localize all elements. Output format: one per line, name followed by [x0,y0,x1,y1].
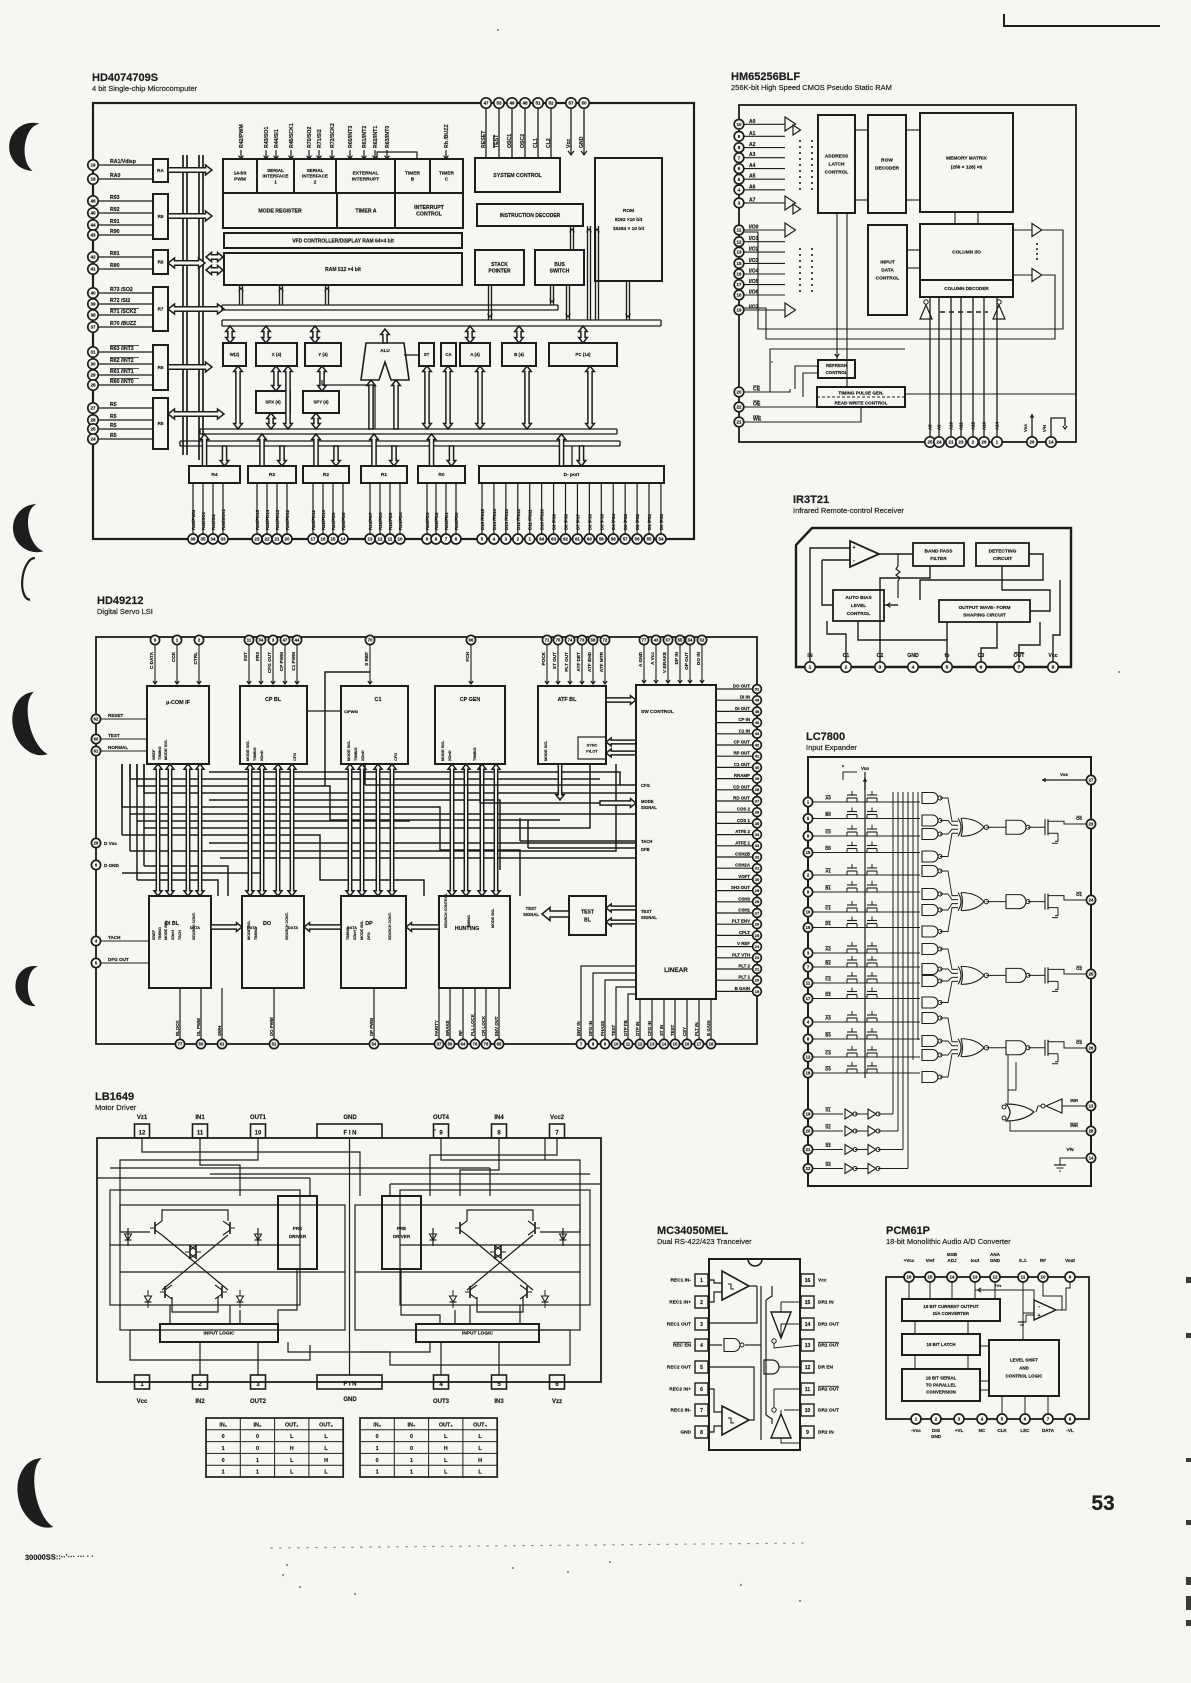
svg-text:43: 43 [90,233,96,238]
svg-text:B1: B1 [825,886,831,891]
pin 57 Vcc [566,98,576,155]
pcm wire ls down [1002,1396,1048,1414]
svg-text:SREF: SREF [152,929,156,940]
svg-text:51: 51 [535,101,541,106]
wire X-SPX [272,366,281,391]
pin 27 Vss [1042,772,1096,785]
inverter pair S1 [845,1109,893,1119]
svg-text:DFG IN: DFG IN [588,1021,593,1036]
svg-text:R4: R4 [211,472,217,478]
svg-text:5: 5 [700,1365,703,1371]
svg-text:11: 11 [737,228,742,233]
pin 11 C2 [803,977,920,988]
svg-text:REC2 OUT: REC2 OUT [667,1365,691,1371]
svg-text:C1 PWM: C1 PWM [291,652,296,671]
svg-text:OUT1: OUT1 [250,1115,267,1121]
svg-text:3: 3 [879,665,882,671]
svg-text:13: 13 [973,1275,978,1280]
svg-text:R8: R8 [158,260,164,265]
svg-text:19: 19 [90,163,96,168]
svg-text:CR LOCK: CR LOCK [481,1015,486,1036]
pin 39 R72 /SI2 [88,298,153,309]
pin 63 D9 /FS9 [549,483,559,544]
receiver 2 amp [708,1367,754,1435]
svg-text:2: 2 [700,1300,703,1306]
block TEST BL [569,896,606,935]
svg-text:12: 12 [993,1275,998,1280]
svg-text:INPUT LOGIC: INPUT LOGIC [204,1331,235,1337]
svg-text:DFB: DFB [641,847,650,852]
svg-text:DR2 IN: DR2 IN [818,1430,834,1436]
pin 3 A7 [734,197,785,207]
wires L half [97,1138,490,1330]
pin 2 A12 [968,297,978,447]
svg-text:19: 19 [755,989,760,994]
svg-text:TIMING: TIMING [353,747,358,761]
pin 29 D Vss [91,838,117,847]
svg-text:18 BIT CURRENT OUTPUT: 18 BIT CURRENT OUTPUT [923,1304,978,1309]
truth table L [206,1418,343,1477]
svg-text:FST: FST [243,652,248,661]
pin 24 O1 [1076,892,1096,905]
bus drop c1 362 [358,764,366,896]
wire CA down [444,366,453,429]
title LB1649 [95,1091,137,1112]
svg-text:+Vs: +Vs [995,1284,1002,1288]
svg-text:DR1 OUT: DR1 OUT [818,1343,839,1349]
bus drop c1 378 [374,764,382,896]
pin 18 RA0 [88,173,153,184]
svg-text:DR1 OUT: DR1 OUT [818,1322,839,1328]
svg-text:61: 61 [220,1042,225,1047]
svg-text:DR EN: DR EN [818,1365,833,1371]
pin 14 MSB [947,1252,958,1282]
nand gate g3k0 [922,1013,942,1024]
block CP BL [240,686,307,764]
svg-text:4: 4 [912,665,915,671]
svg-text:11: 11 [805,1387,811,1393]
scan smudge dotted line [270,1543,810,1548]
svg-text:13: 13 [805,1343,811,1349]
inverter pair S3 [845,1145,903,1155]
svg-text:PARITY: PARITY [434,1020,439,1036]
svg-text:R42/PWM: R42/PWM [239,124,245,148]
pin 12 DTP IN [635,999,645,1049]
svg-text:17: 17 [697,1042,702,1047]
svg-text:R13/FD7: R13/FD7 [368,512,373,530]
pin 5 CLK [997,1414,1007,1433]
svg-text:21: 21 [755,966,760,971]
svg-text:STACK: STACK [491,262,508,268]
svg-text:ENV IN: ENV IN [576,1021,581,1036]
pin 15 I/O3 [734,258,785,268]
pass transistor row 2 [847,825,877,836]
wire or top feed [1007,1055,1009,1103]
block auto bias level control [833,590,884,621]
svg-text:19: 19 [737,308,742,313]
pin 56 D2 /FS2 [632,483,642,544]
svg-text:XDnH: XDnH [447,750,452,761]
svg-text:OUT₄: OUT₄ [473,1422,487,1428]
pin 8 R02/FD2 [431,483,441,544]
pin 50 DL PWM [196,988,206,1049]
test signal arrow right [606,904,636,926]
svg-text:NORMAL: NORMAL [108,745,128,750]
bus drop cpgen 496 [492,764,500,896]
pin 8 IN4 [492,1115,507,1138]
svg-text:CP BL: CP BL [265,697,282,703]
pin 19 B GAIN [716,986,761,996]
svg-text:1: 1 [274,179,277,184]
pin 11 S.J. [1018,1258,1028,1282]
block band pass filter [913,543,964,566]
pin 45 R92 [88,207,153,218]
wire fin mid [350,1138,546,1375]
register R4 [189,466,240,483]
svg-text:24: 24 [755,944,760,949]
pin 23 R33/FD15 [252,483,262,544]
svg-text:D- port: D- port [564,472,580,478]
pin 21 R31/FD13 [272,483,282,544]
wire idc-colio [907,250,920,268]
nand gate g2k1 [922,964,942,975]
block SW CONTROL / LINEAR [636,685,716,999]
svg-text:54: 54 [372,1042,377,1047]
svg-text:MODE SIG.: MODE SIG. [245,740,250,761]
svg-text:39: 39 [90,302,96,307]
pin 53 TEST [493,98,504,158]
svg-text:0: 0 [256,1434,259,1440]
block input logic R [416,1324,539,1342]
scan blob 2 [10,505,43,555]
svg-text:L: L [478,1446,482,1452]
pin 76 PLL LOCK [470,988,480,1049]
svg-text:Vcc2: Vcc2 [550,1115,565,1121]
svg-text:58: 58 [591,638,596,643]
wire SPX down [267,413,276,429]
pass transistor row 6 [847,901,877,912]
pass transistor row 7 [847,916,877,927]
pin 28 R60 /INT0 [88,378,153,390]
svg-text:3: 3 [700,1322,703,1328]
svg-text:16384 × 10 bit: 16384 × 10 bit [613,226,645,232]
svg-text:ENV OUT: ENV OUT [494,1016,499,1036]
svg-text:FILTER: FILTER [930,556,947,562]
pin 18 B GAIN [706,999,716,1049]
pin 11 I/O0 [734,225,785,235]
pin 57 V BRAKE [662,635,673,683]
svg-text:23: 23 [1089,822,1094,827]
signal mesh [122,764,636,896]
pin 8 DFG IN [588,1010,598,1049]
svg-text:8192 ×10 bit: 8192 ×10 bit [615,217,643,223]
svg-text:PILOT: PILOT [586,748,598,753]
svg-text:Vss: Vss [1023,424,1028,432]
svg-text:R12/FD6: R12/FD6 [378,512,383,530]
xnor gate 3 [958,1039,989,1057]
svg-text:S REF: S REF [364,652,369,666]
io input buffer 7 [785,303,796,317]
block row decoder [868,115,906,213]
faint specks [282,29,1120,1602]
pin 72 ATF MTR [599,635,610,684]
wire R4 down [220,446,229,466]
svg-text:5: 5 [946,665,949,671]
svg-text:L: L [444,1434,448,1440]
svg-text:R61 /INT1: R61 /INT1 [110,369,134,375]
svg-text:1: 1 [256,1470,259,1476]
svg-text:CONTROL: CONTROL [826,370,848,375]
svg-text:DR2 OUT: DR2 OUT [818,1387,839,1393]
pin 15 R21/FD9 [328,483,338,544]
pass transistor row 4 [847,864,877,875]
pin 71 POCK [541,635,552,684]
title HM65256BLF [731,71,892,92]
svg-text:2: 2 [314,179,317,184]
svg-text:13: 13 [737,250,742,255]
bus drop ucom 188 [184,764,192,896]
svg-text:10: 10 [737,122,742,127]
svg-text:READ WRITE CONTROL: READ WRITE CONTROL [834,401,887,406]
pin 27 R5 [88,402,153,413]
svg-text:10: 10 [614,1042,619,1047]
svg-text:TIMING: TIMING [467,915,471,928]
svg-text:S4: S4 [825,1162,831,1167]
bus arrow R6 [168,362,212,372]
pcm wire vout [1056,1282,1070,1310]
svg-text:Vout: Vout [1065,1258,1075,1263]
svg-text:27: 27 [1089,778,1094,783]
svg-text:A8: A8 [928,424,933,430]
wire B down [523,366,532,429]
pin 40 C1 OUT [716,762,761,772]
svg-text:PRE: PRE [293,1226,302,1231]
svg-text:OSC2: OSC2 [520,134,526,148]
svg-text:BAND PASS: BAND PASS [925,548,954,554]
svg-text:D3 /FS3: D3 /FS3 [623,513,628,530]
svg-text:SIGNAL: SIGNAL [523,912,539,917]
svg-text:12: 12 [638,1042,643,1047]
pin 3 OUT2 [250,1375,267,1405]
bus drop cpbl 292 [288,764,296,896]
pin 29 SH3 OUT [716,885,761,895]
wire B up [515,326,524,343]
block DA converter [902,1299,1000,1321]
svg-text:GND: GND [931,1434,942,1439]
wire bus switch down b [566,285,571,320]
pin 2 IN2 [193,1375,208,1405]
inverter pair S2 [845,1126,898,1136]
pin 16 Vcc [801,1274,827,1286]
svg-text:R0: R0 [438,472,444,478]
svg-text:REC1 IN+: REC1 IN+ [669,1300,691,1306]
svg-text:60: 60 [587,537,592,542]
svg-text:CIRCUIT: CIRCUIT [993,556,1013,562]
svg-text:DO: DO [263,921,271,927]
pin 5 REC2 OUT [667,1361,708,1373]
svg-text:+Vcc: +Vcc [904,1258,915,1263]
linear fanout wires [581,966,636,1010]
pin 70 S REF [364,635,375,684]
svg-text:CP GEN: CP GEN [460,697,481,703]
wire out 2 [986,969,1086,975]
svg-text:(256 × 128) ×8: (256 × 128) ×8 [951,165,983,171]
svg-text:11: 11 [1021,1275,1026,1280]
pin 30 VOFT [716,874,761,884]
svg-text:LATCH: LATCH [829,162,845,168]
svg-text:INSTRUCTION DECODER: INSTRUCTION DECODER [500,213,561,219]
svg-text:CONTROL: CONTROL [847,611,871,617]
pin 14 ST IN [659,999,669,1049]
svg-text:D10 /FS10: D10 /FS10 [540,508,545,530]
wire sw-sync [606,738,636,757]
svg-text:INTERFACE: INTERFACE [302,174,328,179]
wire data di-do [211,923,242,932]
nand gate g0k2 [922,829,942,840]
svg-text:ATF DET: ATF DET [576,652,581,672]
svg-text:R30/FD12: R30/FD12 [285,509,290,530]
block serial to parallel [902,1369,980,1401]
svg-text:A3: A3 [825,1016,831,1021]
pin 34 ATFE 2 [716,829,761,839]
block column decoder [920,280,1013,297]
svg-text:MSB: MSB [947,1252,958,1257]
pin 26 O3 [1076,1040,1096,1053]
svg-text:C0: C0 [825,830,831,835]
pin 7 R01/FD1 [441,483,451,544]
svg-text:DFG: DFG [367,932,371,940]
svg-text:78: 78 [484,1042,489,1047]
wire row-matrix [906,130,920,200]
svg-text:B3: B3 [825,1033,831,1038]
title IR3T21 [793,494,904,515]
pin 31 R63 /INT3 [88,345,153,357]
svg-text:X (4): X (4) [272,352,282,357]
bus drop ucom 170 [166,764,174,896]
svg-text:HM65256BLF: HM65256BLF [731,71,800,83]
pin 61 NORMAL [91,745,147,756]
svg-text:37: 37 [755,798,760,803]
pin 23 O0 [1076,816,1096,829]
svg-text:PLT OUT: PLT OUT [564,652,569,672]
wire W down [234,366,243,429]
IC boundary HD49212 [96,637,757,1044]
svg-text:28: 28 [1089,1129,1094,1134]
svg-text:17: 17 [311,537,316,542]
svg-text:CP IN: CP IN [738,717,750,722]
svg-text:GND: GND [343,1115,357,1121]
pin 14 VIH [1042,418,1067,447]
block DI BL [149,896,211,988]
pin 38 CD OUT [716,784,761,794]
svg-text:26: 26 [1089,1046,1094,1051]
svg-text:DL PWM: DL PWM [196,1018,201,1036]
signal R70/SO2 [307,127,313,159]
svg-text:ANA: ANA [990,1252,1001,1257]
pass transistor row 12 [847,1011,877,1022]
svg-text:R81: R81 [110,251,120,257]
svg-text:COS 2: COS 2 [737,807,751,812]
svg-text:L: L [290,1434,294,1440]
svg-text:57: 57 [568,101,574,106]
svg-text:33: 33 [755,843,760,848]
pin 19 S1 [803,1108,843,1119]
address input buffer A7 [785,196,801,214]
svg-text:CD OUT: CD OUT [733,784,750,789]
svg-text:IN2: IN2 [195,1399,205,1405]
register SPY [303,391,339,413]
pcm wire ls up [1022,1290,1024,1340]
svg-text:28: 28 [755,899,760,904]
pin 23 PLT VTH [716,952,761,962]
pin 21 PLT 2 [716,964,761,974]
pin 2 DIG [931,1414,942,1439]
svg-text:6: 6 [700,1387,703,1393]
pin 5 IN3 [492,1375,507,1405]
svg-text:3: 3 [256,1382,260,1388]
svg-text:23: 23 [959,440,964,445]
wire Y up [311,326,320,343]
svg-text:R71/SI2: R71/SI2 [317,129,323,148]
svg-text:1: 1 [410,1470,413,1476]
svg-text:24: 24 [937,440,942,445]
pin 38 R71 /SCK2 [88,308,153,320]
svg-text:DATA: DATA [190,925,200,930]
select lines vertical [893,792,918,1169]
pin 48 OSC2 [520,98,530,158]
nand gate g3k3 [922,1072,942,1083]
output fet 1 [1039,894,1058,918]
svg-text:COS 1: COS 1 [737,818,751,823]
pin 75 ST OUT [552,635,563,684]
wire ALU in R [392,380,401,429]
svg-text:15: 15 [928,1275,933,1280]
svg-text:51: 51 [755,686,760,691]
svg-text:INTERFACE: INTERFACE [262,174,288,179]
scan blob 1 [8,122,35,170]
pin 47 RESET [481,98,491,158]
svg-text:48: 48 [522,101,528,106]
block u-COM IF [147,686,209,764]
svg-text:BRAKE: BRAKE [445,1020,450,1036]
svg-text:LC7800: LC7800 [806,731,845,743]
svg-text:REC1 IN-: REC1 IN- [670,1278,691,1284]
dots io [800,248,812,295]
wire D- port up [557,434,566,466]
page number 53 [1091,1492,1114,1515]
pin 21 WE [734,416,766,427]
pin 7 REC2 IN- [670,1404,708,1416]
block timer C [430,159,463,193]
block pre driver R [382,1196,421,1269]
pcm wire iout opamp [975,1282,1034,1305]
svg-text:21: 21 [949,440,954,445]
svg-text:DATA: DATA [247,925,257,930]
ALU [361,343,409,380]
svg-text:DRIVER: DRIVER [289,1234,307,1239]
register W [223,343,246,366]
truth table R [360,1418,497,1477]
svg-text:O1: O1 [1076,892,1082,897]
pin 78 CR LOCK [481,988,491,1049]
dots outbuf [1036,243,1038,262]
bus drop ucom 158 [154,764,162,896]
svg-text:21: 21 [806,1147,811,1152]
svg-text:RA0: RA0 [110,173,120,179]
svg-text:LEVEL SHIFT: LEVEL SHIFT [1010,1358,1038,1363]
svg-text:39: 39 [755,776,760,781]
pin 61 D7 /FS7 [572,483,582,544]
